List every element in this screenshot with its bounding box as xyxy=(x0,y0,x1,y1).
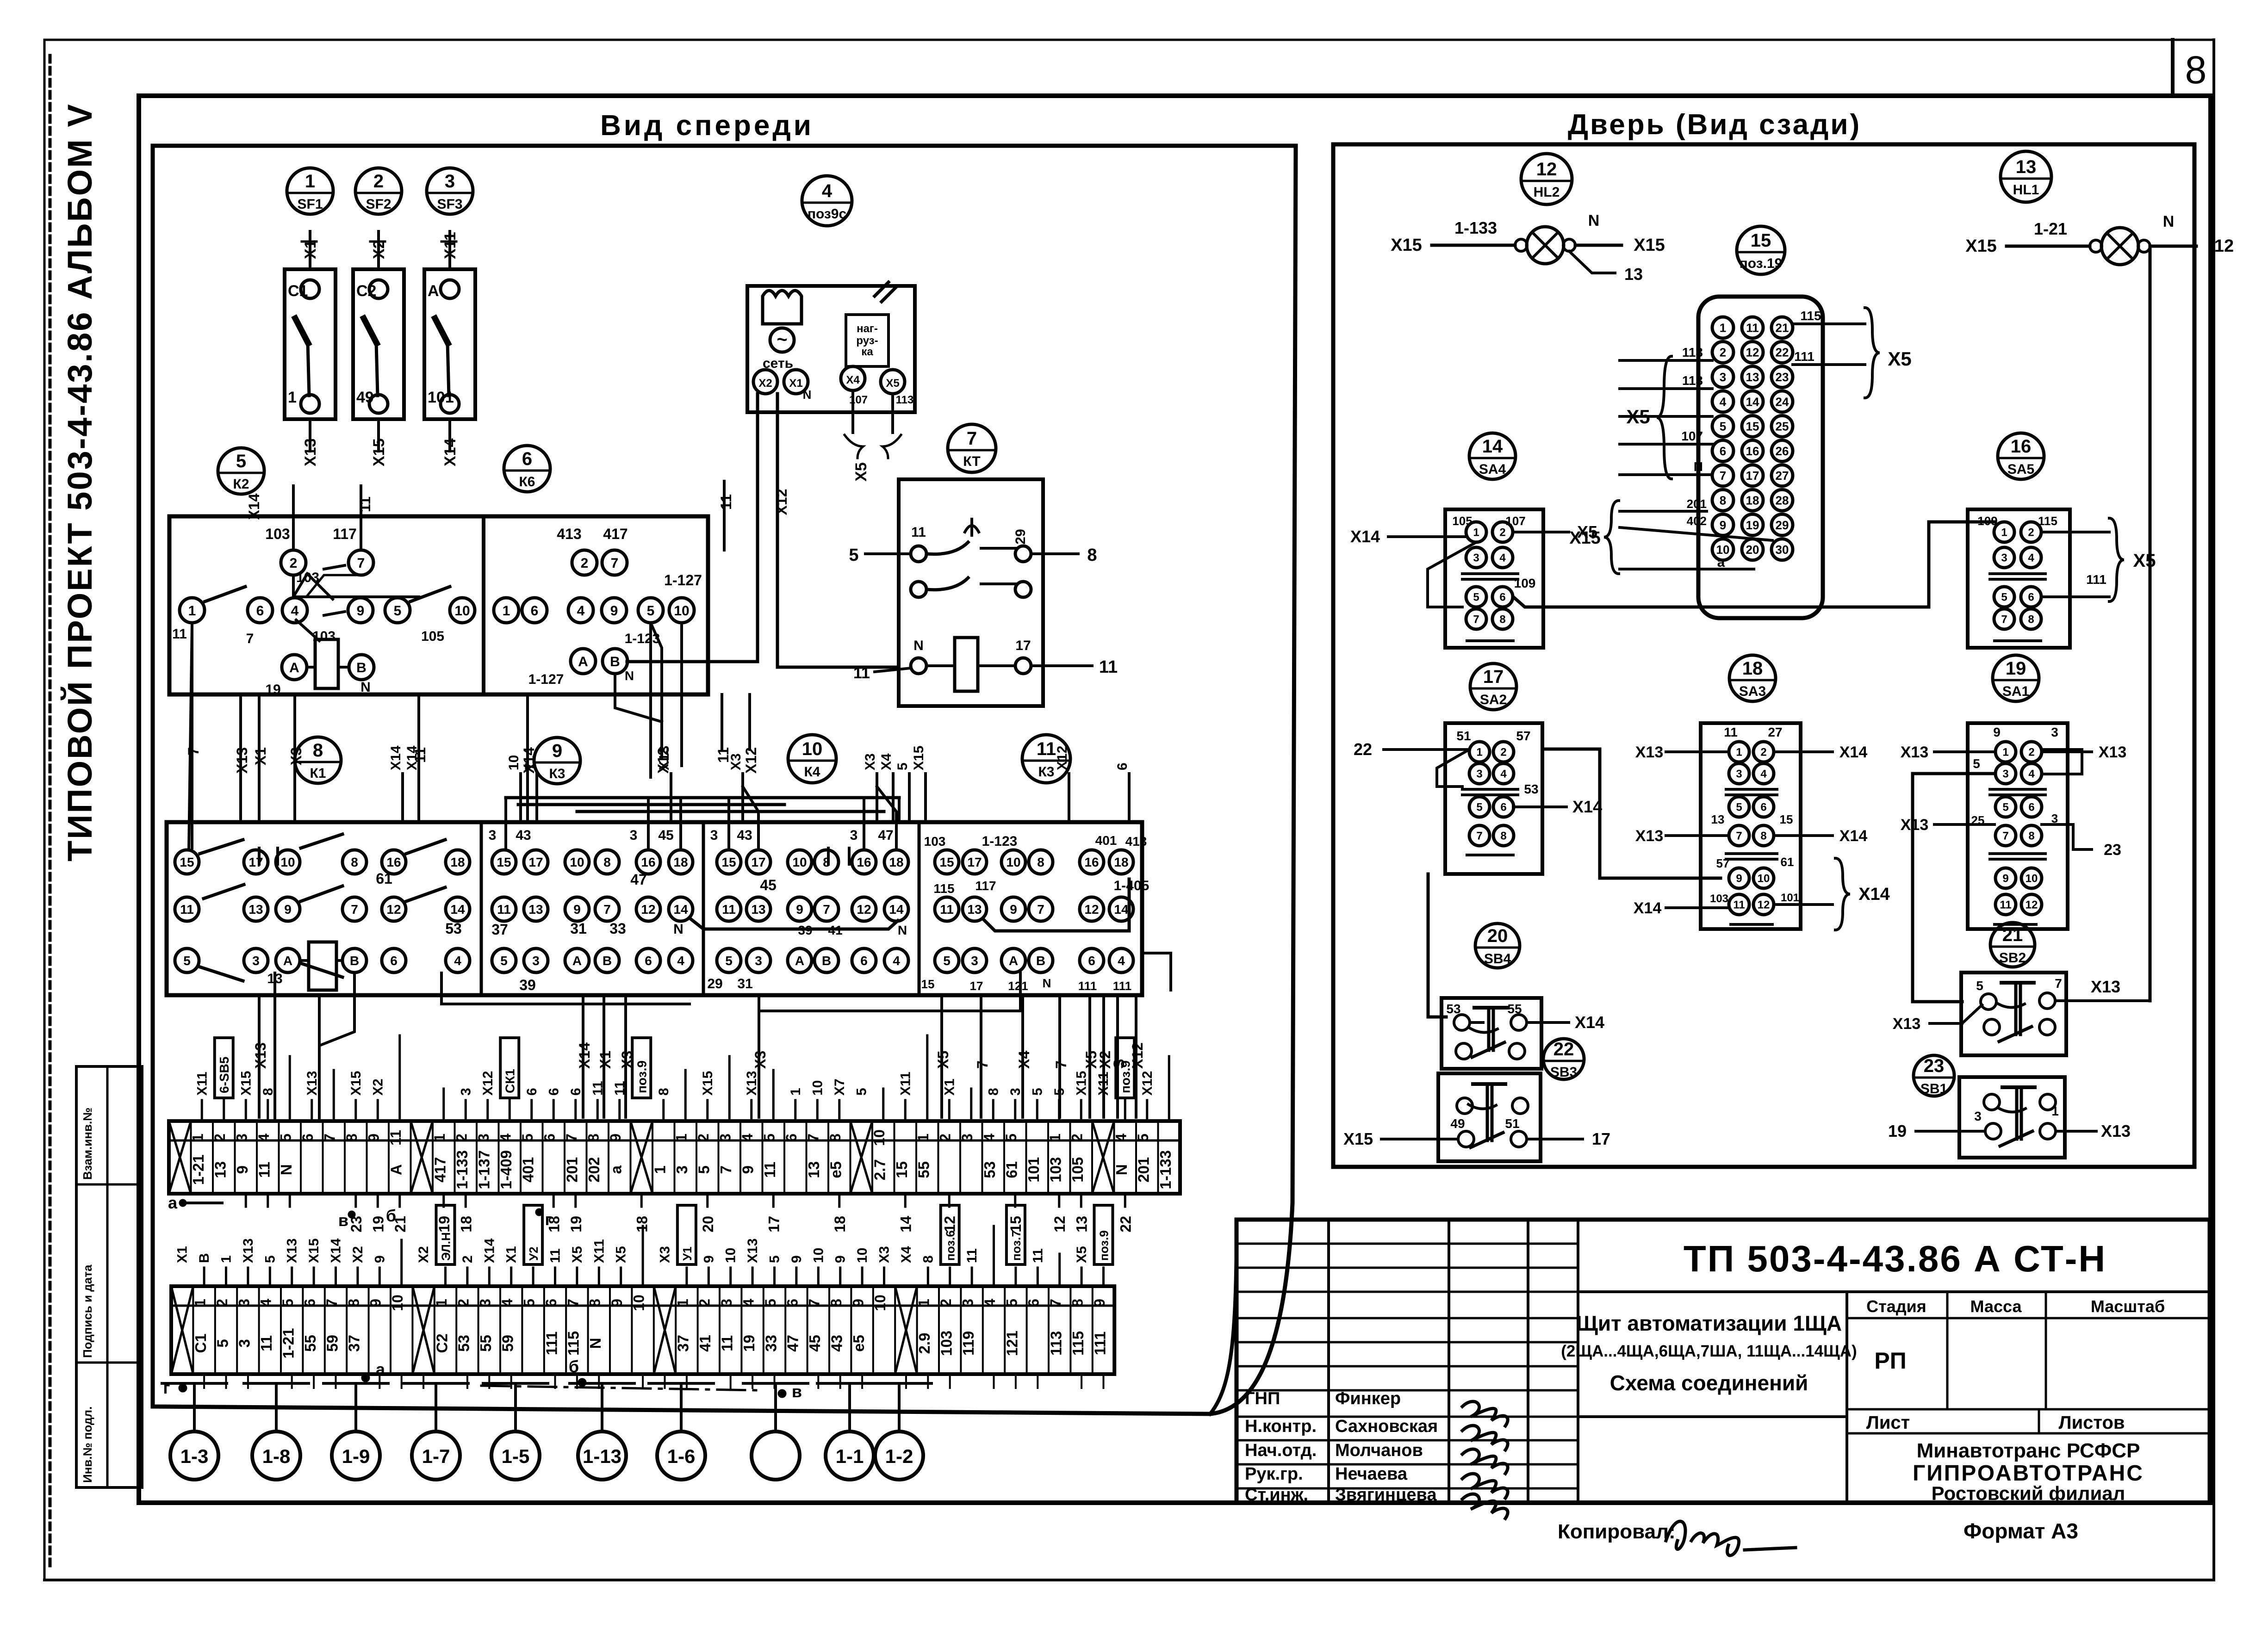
svg-text:43: 43 xyxy=(737,828,752,843)
svg-text:53: 53 xyxy=(1446,1002,1460,1016)
svg-text:27: 27 xyxy=(1768,725,1782,739)
svg-text:Х13: Х13 xyxy=(2101,1122,2131,1140)
svg-text:6: 6 xyxy=(2028,591,2034,604)
svg-text:7: 7 xyxy=(611,556,619,571)
svg-text:15: 15 xyxy=(180,855,194,869)
svg-text:6: 6 xyxy=(1115,762,1130,770)
svg-text:17: 17 xyxy=(1746,469,1759,483)
svg-text:5: 5 xyxy=(1135,1134,1151,1142)
svg-text:Х3: Х3 xyxy=(863,753,878,770)
svg-text:9: 9 xyxy=(610,603,618,619)
svg-text:11: 11 xyxy=(911,525,926,540)
svg-text:103: 103 xyxy=(924,834,946,849)
svg-text:41: 41 xyxy=(828,923,842,937)
svg-text:5: 5 xyxy=(262,1255,278,1263)
svg-text:Х3: Х3 xyxy=(877,1246,892,1263)
svg-text:19: 19 xyxy=(436,1216,453,1233)
svg-text:2: 2 xyxy=(454,1134,470,1142)
svg-text:У1: У1 xyxy=(680,1246,694,1261)
svg-text:13: 13 xyxy=(212,1161,229,1178)
svg-text:7: 7 xyxy=(823,902,830,917)
svg-text:8: 8 xyxy=(2185,48,2207,92)
svg-text:105: 105 xyxy=(1452,514,1472,528)
svg-text:12: 12 xyxy=(941,1216,958,1233)
svg-text:11: 11 xyxy=(387,1130,404,1146)
svg-text:10: 10 xyxy=(802,739,823,759)
svg-text:11: 11 xyxy=(1030,1248,1045,1263)
svg-text:ка: ка xyxy=(861,346,873,358)
svg-text:7: 7 xyxy=(2001,613,2007,626)
svg-text:1: 1 xyxy=(674,1299,691,1307)
svg-text:1: 1 xyxy=(503,603,510,619)
svg-text:3: 3 xyxy=(489,828,497,843)
svg-text:11: 11 xyxy=(1733,899,1745,911)
svg-text:Взам.инв.№: Взам.инв.№ xyxy=(81,1108,94,1180)
svg-text:КТ: КТ xyxy=(963,454,980,469)
svg-text:7: 7 xyxy=(603,902,611,917)
svg-text:103: 103 xyxy=(1710,892,1728,905)
svg-text:Х1: Х1 xyxy=(302,240,319,259)
svg-text:Схема соединений: Схема соединений xyxy=(1610,1371,1808,1395)
svg-text:11: 11 xyxy=(2000,899,2011,911)
svg-text:7: 7 xyxy=(806,1299,823,1307)
svg-text:47: 47 xyxy=(878,828,893,843)
svg-text:ГНП: ГНП xyxy=(1245,1389,1280,1408)
svg-text:Х13: Х13 xyxy=(302,439,319,467)
svg-text:7: 7 xyxy=(522,762,538,770)
svg-text:8: 8 xyxy=(585,1134,602,1142)
svg-text:4: 4 xyxy=(893,954,900,968)
svg-text:Х5: Х5 xyxy=(1577,522,1597,541)
svg-text:Х1: Х1 xyxy=(789,377,802,390)
svg-text:1-133: 1-133 xyxy=(1157,1150,1174,1189)
svg-text:29: 29 xyxy=(1013,529,1028,544)
svg-text:7: 7 xyxy=(967,428,977,449)
svg-text:117: 117 xyxy=(333,526,357,542)
svg-text:Х1: Х1 xyxy=(942,1078,957,1096)
svg-text:4: 4 xyxy=(822,181,833,201)
svg-text:6-SB5: 6-SB5 xyxy=(217,1057,231,1093)
svg-text:Х2: Х2 xyxy=(370,1078,385,1096)
svg-text:61: 61 xyxy=(376,870,392,887)
svg-text:4: 4 xyxy=(2028,552,2034,564)
svg-text:12: 12 xyxy=(1084,902,1099,917)
svg-text:8: 8 xyxy=(1069,1299,1086,1307)
svg-text:5: 5 xyxy=(236,451,246,471)
svg-text:Х4: Х4 xyxy=(879,753,894,770)
svg-text:111: 111 xyxy=(1113,979,1132,993)
svg-text:8: 8 xyxy=(920,1255,936,1263)
svg-text:3: 3 xyxy=(850,828,858,843)
svg-text:39: 39 xyxy=(798,923,812,937)
svg-text:Х13: Х13 xyxy=(1901,816,1929,834)
svg-text:47: 47 xyxy=(630,871,647,888)
svg-text:5: 5 xyxy=(849,545,858,565)
svg-text:17: 17 xyxy=(751,855,765,869)
svg-text:5: 5 xyxy=(762,1299,779,1307)
svg-text:руз-: руз- xyxy=(856,335,878,347)
svg-text:19: 19 xyxy=(265,682,280,697)
svg-text:2.9: 2.9 xyxy=(916,1332,933,1354)
svg-text:111: 111 xyxy=(1794,349,1814,364)
svg-text:7: 7 xyxy=(2002,830,2008,843)
svg-text:Подпись и дата: Подпись и дата xyxy=(81,1264,94,1358)
svg-text:В: В xyxy=(356,660,367,675)
svg-text:14: 14 xyxy=(673,902,688,917)
svg-text:1-7: 1-7 xyxy=(422,1445,450,1467)
svg-text:20: 20 xyxy=(700,1216,716,1233)
svg-text:3: 3 xyxy=(236,1299,252,1307)
svg-text:47: 47 xyxy=(784,1335,802,1352)
svg-text:4: 4 xyxy=(1760,768,1767,781)
svg-text:7: 7 xyxy=(1473,613,1479,626)
svg-text:5: 5 xyxy=(943,954,951,968)
svg-text:115: 115 xyxy=(933,881,954,896)
svg-text:2: 2 xyxy=(1720,346,1726,359)
svg-text:5: 5 xyxy=(895,762,910,770)
svg-text:Х14: Х14 xyxy=(246,493,262,520)
svg-text:Х14: Х14 xyxy=(388,745,404,770)
svg-text:103: 103 xyxy=(938,1331,955,1356)
svg-text:5: 5 xyxy=(280,1299,296,1307)
svg-text:57: 57 xyxy=(1516,729,1530,743)
svg-text:1: 1 xyxy=(192,1299,208,1307)
svg-text:Х15: Х15 xyxy=(1343,1129,1373,1148)
svg-text:поз.9: поз.9 xyxy=(1118,1060,1132,1093)
svg-text:113: 113 xyxy=(1682,345,1703,359)
svg-text:413: 413 xyxy=(557,526,581,542)
svg-text:5: 5 xyxy=(1976,979,1983,993)
svg-text:7: 7 xyxy=(563,1134,580,1142)
svg-text:15: 15 xyxy=(1780,812,1793,826)
svg-text:4: 4 xyxy=(454,954,461,968)
svg-text:SA2: SA2 xyxy=(1480,692,1507,707)
svg-text:е5: е5 xyxy=(827,1161,845,1178)
svg-text:а: а xyxy=(1717,555,1725,570)
svg-text:19: 19 xyxy=(740,1335,758,1352)
svg-text:5: 5 xyxy=(278,1134,294,1142)
svg-text:23: 23 xyxy=(2104,841,2121,859)
svg-text:24: 24 xyxy=(1776,395,1789,409)
svg-text:20: 20 xyxy=(1746,543,1759,557)
svg-text:А: А xyxy=(388,1164,405,1175)
svg-text:поз.19: поз.19 xyxy=(1740,256,1783,271)
svg-text:5: 5 xyxy=(696,1165,713,1174)
svg-text:18: 18 xyxy=(889,855,903,869)
svg-text:23: 23 xyxy=(1924,1056,1945,1076)
svg-text:Х13: Х13 xyxy=(234,747,250,774)
svg-text:Ростовский филиал: Ростовский филиал xyxy=(1932,1482,2125,1504)
svg-text:49: 49 xyxy=(1450,1116,1465,1131)
svg-text:1: 1 xyxy=(2051,1104,2059,1118)
svg-text:15: 15 xyxy=(921,977,935,991)
svg-text:45: 45 xyxy=(760,877,777,893)
svg-text:115: 115 xyxy=(565,1331,582,1356)
svg-text:Стадия: Стадия xyxy=(1866,1297,1926,1316)
svg-text:Х1: Х1 xyxy=(175,1246,190,1263)
svg-text:9: 9 xyxy=(357,603,365,619)
svg-text:8: 8 xyxy=(1499,613,1505,626)
svg-text:39: 39 xyxy=(519,977,536,993)
svg-text:7: 7 xyxy=(1037,902,1044,917)
svg-text:SA3: SA3 xyxy=(1739,684,1766,699)
svg-text:11: 11 xyxy=(497,902,511,917)
svg-text:111: 111 xyxy=(543,1332,560,1355)
svg-text:3: 3 xyxy=(971,954,978,968)
svg-text:26: 26 xyxy=(1776,444,1789,458)
svg-text:SF3: SF3 xyxy=(437,197,462,212)
svg-text:37: 37 xyxy=(346,1335,363,1352)
svg-text:9: 9 xyxy=(2002,873,2008,885)
svg-text:1: 1 xyxy=(916,1299,932,1307)
svg-text:10: 10 xyxy=(811,1248,826,1263)
svg-text:4: 4 xyxy=(1118,954,1125,968)
svg-text:1: 1 xyxy=(673,1134,690,1142)
svg-text:Х14: Х14 xyxy=(1572,797,1602,816)
svg-text:В: В xyxy=(197,1253,212,1263)
svg-text:Инв.№ подл.: Инв.№ подл. xyxy=(81,1407,94,1483)
svg-text:Х5: Х5 xyxy=(1074,1246,1089,1263)
svg-text:13: 13 xyxy=(528,902,543,917)
svg-text:16: 16 xyxy=(386,855,401,869)
svg-text:1-133: 1-133 xyxy=(1454,218,1497,237)
svg-text:21: 21 xyxy=(1776,321,1789,335)
svg-text:6: 6 xyxy=(256,603,264,619)
svg-text:3: 3 xyxy=(1974,1109,1982,1123)
svg-text:Х12: Х12 xyxy=(1055,746,1070,770)
svg-text:6: 6 xyxy=(1088,954,1095,968)
svg-text:в: в xyxy=(792,1382,802,1401)
svg-text:Х11: Х11 xyxy=(1096,1072,1111,1096)
svg-text:6: 6 xyxy=(568,1088,584,1096)
svg-text:7: 7 xyxy=(322,1134,338,1142)
svg-text:4: 4 xyxy=(982,1299,998,1307)
svg-text:Вид спереди: Вид спереди xyxy=(600,110,814,142)
svg-text:Х14: Х14 xyxy=(1858,885,1890,904)
svg-text:Х1: Х1 xyxy=(597,1051,614,1069)
svg-text:8: 8 xyxy=(313,740,323,761)
svg-text:Х5: Х5 xyxy=(2133,551,2156,571)
svg-text:53: 53 xyxy=(455,1335,472,1352)
svg-text:1-127: 1-127 xyxy=(528,672,564,687)
svg-text:1-21: 1-21 xyxy=(2034,219,2067,238)
svg-text:6: 6 xyxy=(860,954,868,968)
svg-text:9: 9 xyxy=(1736,873,1742,885)
svg-text:6: 6 xyxy=(524,1088,540,1096)
svg-text:59: 59 xyxy=(499,1335,516,1352)
svg-text:N: N xyxy=(898,923,907,937)
svg-text:Х11: Х11 xyxy=(194,1072,210,1096)
svg-text:15: 15 xyxy=(1007,1216,1024,1233)
svg-text:N: N xyxy=(673,922,684,937)
svg-text:Х13: Х13 xyxy=(252,1042,269,1069)
svg-text:3: 3 xyxy=(1008,1088,1023,1096)
svg-text:14: 14 xyxy=(889,902,904,917)
svg-text:5: 5 xyxy=(767,1255,783,1263)
svg-text:ТИПОВОЙ ПРОЕКТ 503-4-43.86 А: ТИПОВОЙ ПРОЕКТ 503-4-43.86 АЛЬБОМ V xyxy=(60,103,99,861)
svg-text:5: 5 xyxy=(394,603,402,619)
svg-text:Дверь (Вид сзади): Дверь (Вид сзади) xyxy=(1568,109,1861,141)
svg-text:1-133: 1-133 xyxy=(454,1150,471,1189)
svg-text:С1: С1 xyxy=(192,1333,209,1353)
svg-text:1: 1 xyxy=(1047,1134,1063,1142)
svg-text:11: 11 xyxy=(548,1248,563,1263)
svg-text:Щит автоматизации 1ЩА: Щит автоматизации 1ЩА xyxy=(1576,1311,1842,1335)
svg-text:9: 9 xyxy=(607,1134,624,1142)
svg-text:3: 3 xyxy=(959,1299,976,1307)
svg-text:В: В xyxy=(350,954,359,968)
svg-text:45: 45 xyxy=(658,828,673,843)
svg-text:4: 4 xyxy=(677,954,684,968)
svg-text:5: 5 xyxy=(2001,591,2007,604)
svg-text:5: 5 xyxy=(519,1134,536,1142)
svg-text:2: 2 xyxy=(290,556,298,571)
svg-text:111: 111 xyxy=(1078,979,1097,993)
svg-text:14: 14 xyxy=(1114,902,1129,917)
svg-text:29: 29 xyxy=(1776,518,1789,532)
svg-text:Х1: Х1 xyxy=(252,747,269,765)
svg-text:6: 6 xyxy=(531,603,539,619)
svg-text:13: 13 xyxy=(1711,812,1725,826)
svg-text:113: 113 xyxy=(1682,373,1703,388)
svg-text:К4: К4 xyxy=(804,764,820,780)
svg-text:Масштаб: Масштаб xyxy=(2091,1297,2165,1316)
svg-text:3: 3 xyxy=(252,954,260,968)
svg-text:А: А xyxy=(578,654,588,669)
svg-text:1: 1 xyxy=(431,1134,448,1142)
svg-text:11: 11 xyxy=(722,902,736,917)
svg-text:5: 5 xyxy=(521,1299,537,1307)
svg-text:16: 16 xyxy=(641,855,655,869)
svg-text:19: 19 xyxy=(1746,518,1759,532)
svg-text:SA1: SA1 xyxy=(2002,684,2029,699)
svg-text:5: 5 xyxy=(1003,1134,1019,1142)
svg-text:55: 55 xyxy=(477,1335,494,1352)
svg-text:10: 10 xyxy=(855,1248,870,1263)
svg-text:1-21: 1-21 xyxy=(280,1328,297,1358)
svg-text:16: 16 xyxy=(2011,436,2032,457)
svg-text:9: 9 xyxy=(701,1255,716,1263)
svg-text:5: 5 xyxy=(1052,1088,1067,1096)
svg-text:109: 109 xyxy=(1514,576,1536,590)
svg-text:31: 31 xyxy=(737,976,752,991)
svg-text:13: 13 xyxy=(1073,1216,1090,1233)
svg-text:117: 117 xyxy=(975,879,996,893)
svg-text:С1: С1 xyxy=(288,282,308,300)
svg-text:49: 49 xyxy=(356,389,374,406)
svg-text:2: 2 xyxy=(214,1299,230,1307)
svg-text:Х5: Х5 xyxy=(614,1246,629,1263)
svg-text:121: 121 xyxy=(1008,979,1028,993)
svg-text:N: N xyxy=(1113,1164,1130,1175)
svg-text:12: 12 xyxy=(1746,346,1759,359)
svg-text:Х14: Х14 xyxy=(441,438,459,466)
svg-text:9: 9 xyxy=(796,902,803,917)
svg-text:1-8: 1-8 xyxy=(262,1445,291,1467)
svg-text:а: а xyxy=(608,1165,625,1174)
svg-text:61: 61 xyxy=(1003,1161,1020,1178)
svg-text:5: 5 xyxy=(761,1134,778,1142)
svg-text:6: 6 xyxy=(1760,801,1766,814)
svg-text:Х14: Х14 xyxy=(1634,899,1662,917)
svg-text:К3: К3 xyxy=(1038,764,1055,780)
svg-text:Х3: Х3 xyxy=(752,1051,769,1069)
svg-text:Ст.инж.: Ст.инж. xyxy=(1245,1485,1308,1505)
svg-text:10: 10 xyxy=(570,855,584,869)
svg-text:7: 7 xyxy=(357,556,365,571)
svg-text:3: 3 xyxy=(717,1134,734,1142)
svg-text:13: 13 xyxy=(967,902,982,917)
svg-text:N: N xyxy=(587,1338,604,1349)
svg-text:1: 1 xyxy=(190,1134,206,1142)
svg-text:2: 2 xyxy=(938,1299,954,1307)
svg-text:1-137: 1-137 xyxy=(476,1150,493,1189)
svg-text:10: 10 xyxy=(2026,873,2038,885)
svg-text:N: N xyxy=(2163,213,2175,230)
svg-text:3: 3 xyxy=(445,171,455,192)
svg-text:Х14: Х14 xyxy=(1575,1013,1604,1032)
svg-text:8: 8 xyxy=(1500,830,1506,843)
svg-text:~: ~ xyxy=(777,329,787,350)
svg-text:Молчанов: Молчанов xyxy=(1335,1441,1423,1460)
svg-text:12: 12 xyxy=(1051,1216,1068,1233)
svg-text:SF1: SF1 xyxy=(297,197,323,212)
svg-text:15: 15 xyxy=(1746,420,1759,434)
svg-text:20: 20 xyxy=(1487,926,1508,946)
svg-text:2: 2 xyxy=(1500,746,1506,759)
svg-text:Х13: Х13 xyxy=(745,1239,760,1263)
svg-text:2: 2 xyxy=(373,171,384,192)
svg-text:9: 9 xyxy=(789,1255,804,1263)
svg-text:101: 101 xyxy=(428,389,454,406)
svg-text:1-5: 1-5 xyxy=(502,1445,530,1467)
svg-text:Х15: Х15 xyxy=(911,746,926,770)
svg-text:3: 3 xyxy=(1736,768,1742,781)
svg-text:13: 13 xyxy=(249,902,263,917)
svg-text:В: В xyxy=(1036,954,1045,968)
svg-text:В: В xyxy=(610,654,620,669)
svg-text:18: 18 xyxy=(1114,855,1128,869)
svg-text:9: 9 xyxy=(573,902,581,917)
svg-text:Н.контр.: Н.контр. xyxy=(1245,1417,1317,1436)
svg-text:5: 5 xyxy=(1030,1088,1045,1096)
svg-text:В: В xyxy=(822,954,831,968)
svg-text:3: 3 xyxy=(959,1134,976,1142)
svg-text:1: 1 xyxy=(219,1255,234,1263)
svg-text:5: 5 xyxy=(1473,591,1479,604)
svg-text:14: 14 xyxy=(1746,395,1759,409)
svg-text:г: г xyxy=(163,1378,170,1397)
svg-text:201: 201 xyxy=(564,1157,581,1183)
svg-text:6: 6 xyxy=(784,1299,801,1307)
svg-text:10: 10 xyxy=(723,1248,739,1263)
svg-text:4: 4 xyxy=(1113,1134,1130,1142)
svg-text:SB3: SB3 xyxy=(1550,1065,1577,1080)
svg-text:3: 3 xyxy=(458,1088,473,1096)
svg-text:53: 53 xyxy=(445,920,462,937)
svg-text:1: 1 xyxy=(1473,527,1479,539)
svg-text:6: 6 xyxy=(543,1299,559,1307)
svg-text:1-21: 1-21 xyxy=(190,1154,207,1185)
svg-text:10: 10 xyxy=(1006,855,1020,869)
svg-text:2: 2 xyxy=(211,1134,228,1142)
svg-text:43: 43 xyxy=(516,828,531,843)
svg-text:18: 18 xyxy=(450,855,465,869)
svg-text:8: 8 xyxy=(2028,613,2034,626)
svg-text:6: 6 xyxy=(645,954,652,968)
svg-text:17: 17 xyxy=(1592,1129,1610,1148)
svg-text:4: 4 xyxy=(497,1134,514,1142)
